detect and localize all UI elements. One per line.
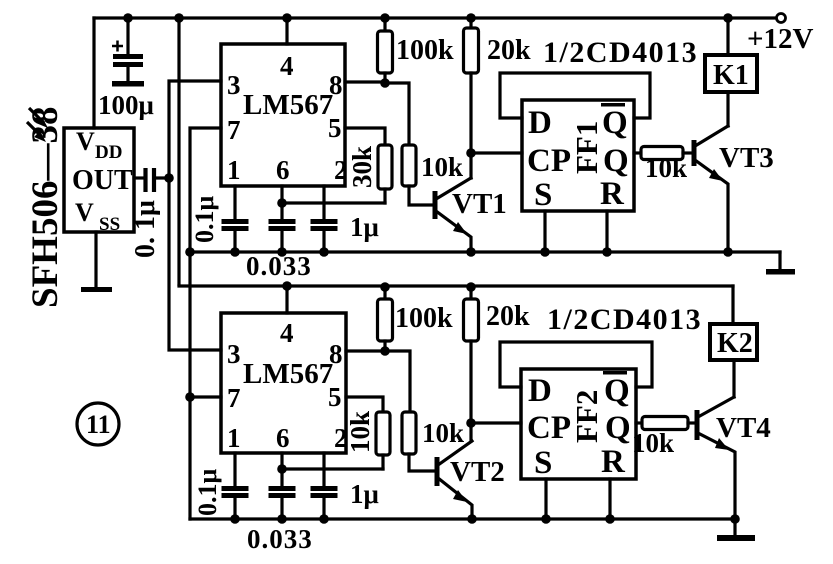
svg-text:Q: Q [602, 105, 628, 141]
junction dot: pin8 node [380, 78, 390, 88]
label +12V [747, 23, 814, 55]
junction dot: VT3 emitter on ground rail [723, 247, 733, 257]
svg-text:4: 4 [280, 318, 294, 348]
pin number 1 lower [227, 423, 241, 453]
label SFH506-38 (rotated) [25, 107, 66, 308]
svg-text:11: 11 [86, 410, 111, 439]
wire: pin8 node to 10k top [385, 83, 409, 145]
svg-text:VT3: VT3 [719, 142, 774, 174]
svg-text:100k: 100k [396, 35, 454, 66]
pin number 7 lower [227, 383, 241, 413]
svg-text:8: 8 [329, 339, 343, 369]
junction dot: 20k lower on rail [466, 282, 476, 292]
wire: D2 to Qbar2 feedback loop [500, 342, 652, 387]
svg-text:D: D [528, 373, 552, 409]
relay K1 [705, 55, 757, 92]
svg-text:S: S [534, 445, 552, 481]
resistor 10k at Q1 (horizontal) [634, 147, 692, 160]
svg-text:2: 2 [334, 155, 348, 185]
junction dot: pin7 lower on ground bus [185, 392, 195, 402]
wire: VSS to ground [94, 232, 97, 288]
svg-text:10k: 10k [645, 153, 687, 183]
pin label OUT [72, 165, 133, 196]
svg-text:10k: 10k [345, 411, 375, 453]
wire: supply drop from top rail to lower section rail [177, 18, 180, 285]
wire: pin4 lower to supply rail [285, 286, 288, 313]
value label 0.033 (upper) [246, 251, 312, 281]
label LM567 [243, 89, 333, 121]
wire: CP2 stub [471, 421, 521, 424]
svg-text:3: 3 [227, 339, 241, 369]
resistor 10k base VT1 [402, 145, 416, 186]
svg-text:5: 5 [328, 113, 342, 143]
pin number 5 [328, 113, 342, 143]
wire: 10k timing bottom [381, 455, 384, 469]
relay K2 [710, 324, 757, 360]
junction dot: 100k on rail [380, 13, 390, 23]
value label 30k (rotated) [347, 146, 377, 188]
capacitor 0.1u coupling from OUT [134, 168, 169, 192]
pin label VDD [76, 127, 122, 163]
label VT1 [452, 188, 507, 220]
pin label R (FF1) [600, 176, 625, 212]
label 1/2CD4013 lower [547, 303, 702, 336]
label FF2 (rotated) [569, 390, 604, 443]
junction dot: ground bus on upper rail [185, 247, 195, 257]
svg-text:CP: CP [527, 410, 571, 446]
value label 20k lower [486, 301, 530, 332]
svg-text:V: V [75, 198, 94, 227]
transistor VT3 [694, 126, 728, 252]
wire: pin8 stub [345, 80, 385, 83]
wire: pin5 to 30k top [345, 128, 385, 145]
wire: 10k to VT1 base [409, 186, 433, 205]
capacitor C 100u electrolytic [112, 18, 143, 81]
pin number 6 lower [276, 423, 290, 453]
svg-text:VT2: VT2 [450, 456, 505, 488]
pin label CP (FF2) [527, 410, 571, 446]
capacitor 1u at pin2 (upper) [311, 186, 338, 252]
wire: pin4 to +12V rail [285, 18, 288, 44]
svg-text:+12V: +12V [747, 23, 814, 55]
pin number 3 [227, 70, 241, 100]
svg-text:10k: 10k [421, 152, 463, 182]
capacitor 1u at pin2 (lower) [311, 453, 338, 519]
pin label Qbar (FF1) [601, 103, 628, 141]
junction dot: VT4 emitter on ground rail [730, 514, 740, 524]
wire: lower section supply rail [179, 284, 733, 287]
pin number 7 [227, 115, 241, 145]
wire: R2 to ground rail [608, 479, 611, 519]
resistor 100k upper [378, 18, 393, 83]
junction dot: K1 on rail [723, 13, 733, 23]
transistor VT1 [435, 178, 471, 252]
svg-text:V: V [76, 127, 95, 156]
junction dot: 100u on rail [123, 13, 133, 23]
pin label R (FF2) [601, 444, 626, 480]
value label 20k upper [487, 35, 531, 66]
svg-text:D: D [528, 105, 552, 141]
wire: pin6 node to 30k bottom [282, 201, 385, 204]
wire: pin7 lower stub [190, 395, 221, 398]
svg-text:K1: K1 [713, 60, 749, 91]
label VT2 [450, 456, 505, 488]
value label 0.1u pin1 lower (rotated) [193, 469, 222, 517]
svg-text:100k: 100k [395, 303, 453, 334]
value label 10k (VT2 base) [422, 418, 464, 448]
wire: signal line OUT to pin3 of both LM567 [169, 81, 221, 350]
wire: VT3 collector to K1 [726, 92, 729, 126]
svg-text:1/2CD4013: 1/2CD4013 [547, 303, 702, 336]
wire: R1 to ground rail [605, 211, 608, 252]
wire: pin6 lower node to 10k timing bottom [282, 467, 383, 470]
value label 100u [98, 90, 154, 120]
capacitor 0.1u at pin1 (upper) [222, 186, 249, 252]
svg-text:7: 7 [227, 383, 241, 413]
IR arrow 2 [27, 122, 46, 142]
junction dot: pin4 lower [282, 281, 292, 291]
junction dot: CP2 node [466, 418, 476, 428]
label 1/2CD4013 upper [543, 36, 698, 69]
junction dot: R1 on rail [602, 247, 612, 257]
capacitor 0.033 at pin6 (lower) [269, 453, 296, 519]
svg-text:4: 4 [280, 51, 294, 81]
svg-text:VT4: VT4 [716, 412, 771, 444]
IR arrow 1 [29, 108, 48, 128]
svg-text:K2: K2 [717, 328, 753, 359]
terminal: +12V open circle [777, 14, 786, 23]
junction dot: pin8 lower node [380, 346, 390, 356]
pin label D (FF1) [528, 105, 552, 141]
junction dot: pin6 cap on ground rail [277, 247, 287, 257]
wire: S1 to ground rail [543, 211, 546, 252]
IC U3 LM567 lower box [221, 313, 346, 453]
svg-text:SFH506—38: SFH506—38 [25, 107, 66, 308]
transistor VT2 [437, 441, 472, 519]
svg-text:20k: 20k [486, 301, 530, 332]
value label 10k timing (rotated) [345, 411, 375, 453]
pin label VSS [75, 198, 120, 235]
svg-text:Q: Q [603, 143, 629, 179]
pin number 4 [280, 51, 294, 81]
svg-text:1: 1 [227, 155, 241, 185]
junction dot: CP1 node [466, 148, 476, 158]
wire: D to Qbar feedback loop [500, 73, 650, 118]
pin label D (FF2) [528, 373, 552, 409]
svg-text:5: 5 [328, 382, 342, 412]
svg-text:S: S [534, 177, 552, 213]
junction dot: VT1 emitter on ground rail [466, 247, 476, 257]
value label 0.033 (lower) [247, 524, 313, 554]
resistor 30k [378, 145, 392, 189]
wire: lower ground rail [190, 517, 735, 520]
junction dot: VT2 emitter on ground rail [467, 514, 477, 524]
pin number 5 lower [328, 382, 342, 412]
wire: K1 to +12V rail [726, 18, 729, 55]
pin label Qbar (FF2) [603, 371, 630, 409]
svg-text:SS: SS [99, 214, 120, 235]
label VT3 [719, 142, 774, 174]
svg-text:DD: DD [95, 142, 122, 163]
resistor 10k at Q2 (horizontal) [636, 417, 695, 430]
figure number 11 [77, 403, 119, 445]
wire: rail to SFH506 VDD [92, 18, 95, 128]
svg-text:LM567: LM567 [243, 358, 333, 390]
svg-text:3: 3 [227, 70, 241, 100]
junction dot: 100k lower on rail [380, 282, 390, 292]
value label 1u (upper) [350, 212, 379, 242]
label VT4 [716, 412, 771, 444]
value label 10k (VT1 base) [421, 152, 463, 182]
svg-text:7: 7 [227, 115, 241, 145]
junction dot: 20k on rail [466, 13, 476, 23]
wire: pin8 lower stub [346, 349, 385, 352]
label FF1 (rotated) [569, 121, 604, 174]
resistor 10k timing lower [376, 412, 390, 455]
transistor VT4 [697, 397, 735, 519]
pin label S (FF2) [534, 445, 552, 481]
junction dot: pin6 cap lower on rail [277, 514, 287, 524]
pin number 2 lower [334, 423, 348, 453]
IC FF2 half CD4013 box [521, 369, 636, 479]
junction dot: pin6 node [277, 198, 287, 208]
resistor 20k lower [464, 286, 479, 441]
value label 10k (Q1) [645, 153, 687, 183]
value label 100k lower [395, 303, 453, 334]
wire: CP1 stub [471, 151, 522, 154]
value label 0.1u pin1 (rotated) [190, 196, 219, 244]
IC U2 LM567 upper box [221, 44, 345, 186]
pin label CP (FF1) [527, 143, 571, 179]
svg-text:20k: 20k [487, 35, 531, 66]
capacitor 0.1u at pin1 (lower) [222, 453, 249, 519]
svg-text:VT1: VT1 [452, 188, 507, 220]
pin number 8 lower [329, 339, 343, 369]
wire: +12V top supply rail [94, 16, 777, 19]
svg-text:8: 8 [329, 70, 343, 100]
svg-text:FF2: FF2 [569, 390, 604, 443]
pin label Q (FF1) [603, 143, 629, 179]
resistor 100k lower [378, 286, 393, 351]
svg-text:LM567: LM567 [243, 89, 333, 121]
svg-text:R: R [600, 176, 625, 212]
pin label S (FF1) [534, 177, 552, 213]
junction dot: pin1 cap on ground rail [230, 247, 240, 257]
label LM567 lower [243, 358, 333, 390]
pin number 2 [334, 155, 348, 185]
junction dot: pin6 lower node [277, 464, 287, 474]
ground: lower right [717, 519, 755, 541]
resistor 10k base VT2 [402, 412, 416, 454]
junction dot: coupling cap to signal line [164, 173, 174, 183]
capacitor 0.033 at pin6 (upper) [269, 186, 296, 252]
wire: 30k bottom [383, 189, 386, 203]
wire: pin7 ground bus (both ICs) [190, 128, 221, 519]
svg-text:OUT: OUT [72, 165, 133, 196]
svg-text:1/2CD4013: 1/2CD4013 [543, 36, 698, 69]
svg-text:FF1: FF1 [569, 121, 604, 174]
wire: K2 to lower supply rail [731, 286, 734, 324]
wire: upper ground rail [190, 250, 780, 253]
junction dot: pin4 on rail [282, 13, 292, 23]
svg-text:CP: CP [527, 143, 571, 179]
svg-text:10k: 10k [632, 428, 674, 458]
svg-text:6: 6 [276, 155, 290, 185]
pin label Q (FF2) [605, 410, 631, 446]
junction dot: pin2 cap on ground rail [319, 247, 329, 257]
junction dot: S1 on rail [540, 247, 550, 257]
wire: VT4 collector to K2 [732, 360, 735, 397]
svg-text:1: 1 [227, 423, 241, 453]
IC U1 SFH506-38 receiver box [64, 128, 134, 232]
junction dot: R2 on rail [605, 514, 615, 524]
value label 1u (lower) [350, 479, 379, 509]
wire: pin8 lower node to 10k base top [385, 351, 410, 412]
ground: upper right [766, 252, 795, 275]
pin number 6 [276, 155, 290, 185]
pin number 8 [329, 70, 343, 100]
value label 100k upper [396, 35, 454, 66]
svg-text:1μ: 1μ [350, 212, 379, 242]
pin number 1 [227, 155, 241, 185]
svg-text:0. 1μ: 0. 1μ [130, 200, 161, 258]
svg-text:30k: 30k [347, 146, 377, 188]
svg-text:100μ: 100μ [98, 90, 154, 120]
resistor 20k upper [464, 18, 479, 178]
svg-text:0.033: 0.033 [246, 251, 312, 281]
wire: pin5 lower to 10k timing top [346, 397, 383, 412]
pin number 4 lower [280, 318, 294, 348]
svg-text:1μ: 1μ [350, 479, 379, 509]
junction dot: supply drop on top rail [174, 13, 184, 23]
svg-text:Q: Q [605, 410, 631, 446]
svg-text:0.033: 0.033 [247, 524, 313, 554]
junction dot: pin2 cap lower on rail [319, 514, 329, 524]
junction dot: pin1 cap lower on rail [230, 514, 240, 524]
svg-text:Q: Q [604, 373, 630, 409]
wire: 10k to VT2 base [409, 454, 435, 471]
svg-text:0.1μ: 0.1μ [193, 469, 222, 517]
junction dot: S2 on rail [541, 514, 551, 524]
ground: below 100u [112, 81, 144, 87]
IC FF1 half CD4013 box [522, 100, 634, 211]
pin number 3 lower [227, 339, 241, 369]
ground: SFH506 VSS [81, 287, 112, 292]
svg-text:R: R [601, 444, 626, 480]
svg-text:6: 6 [276, 423, 290, 453]
wire: S2 to ground rail [544, 479, 547, 519]
svg-text:0.1μ: 0.1μ [190, 196, 219, 244]
svg-text:10k: 10k [422, 418, 464, 448]
value label 10k (Q2) [632, 428, 674, 458]
value label 0.1u (rotated) [130, 200, 161, 258]
